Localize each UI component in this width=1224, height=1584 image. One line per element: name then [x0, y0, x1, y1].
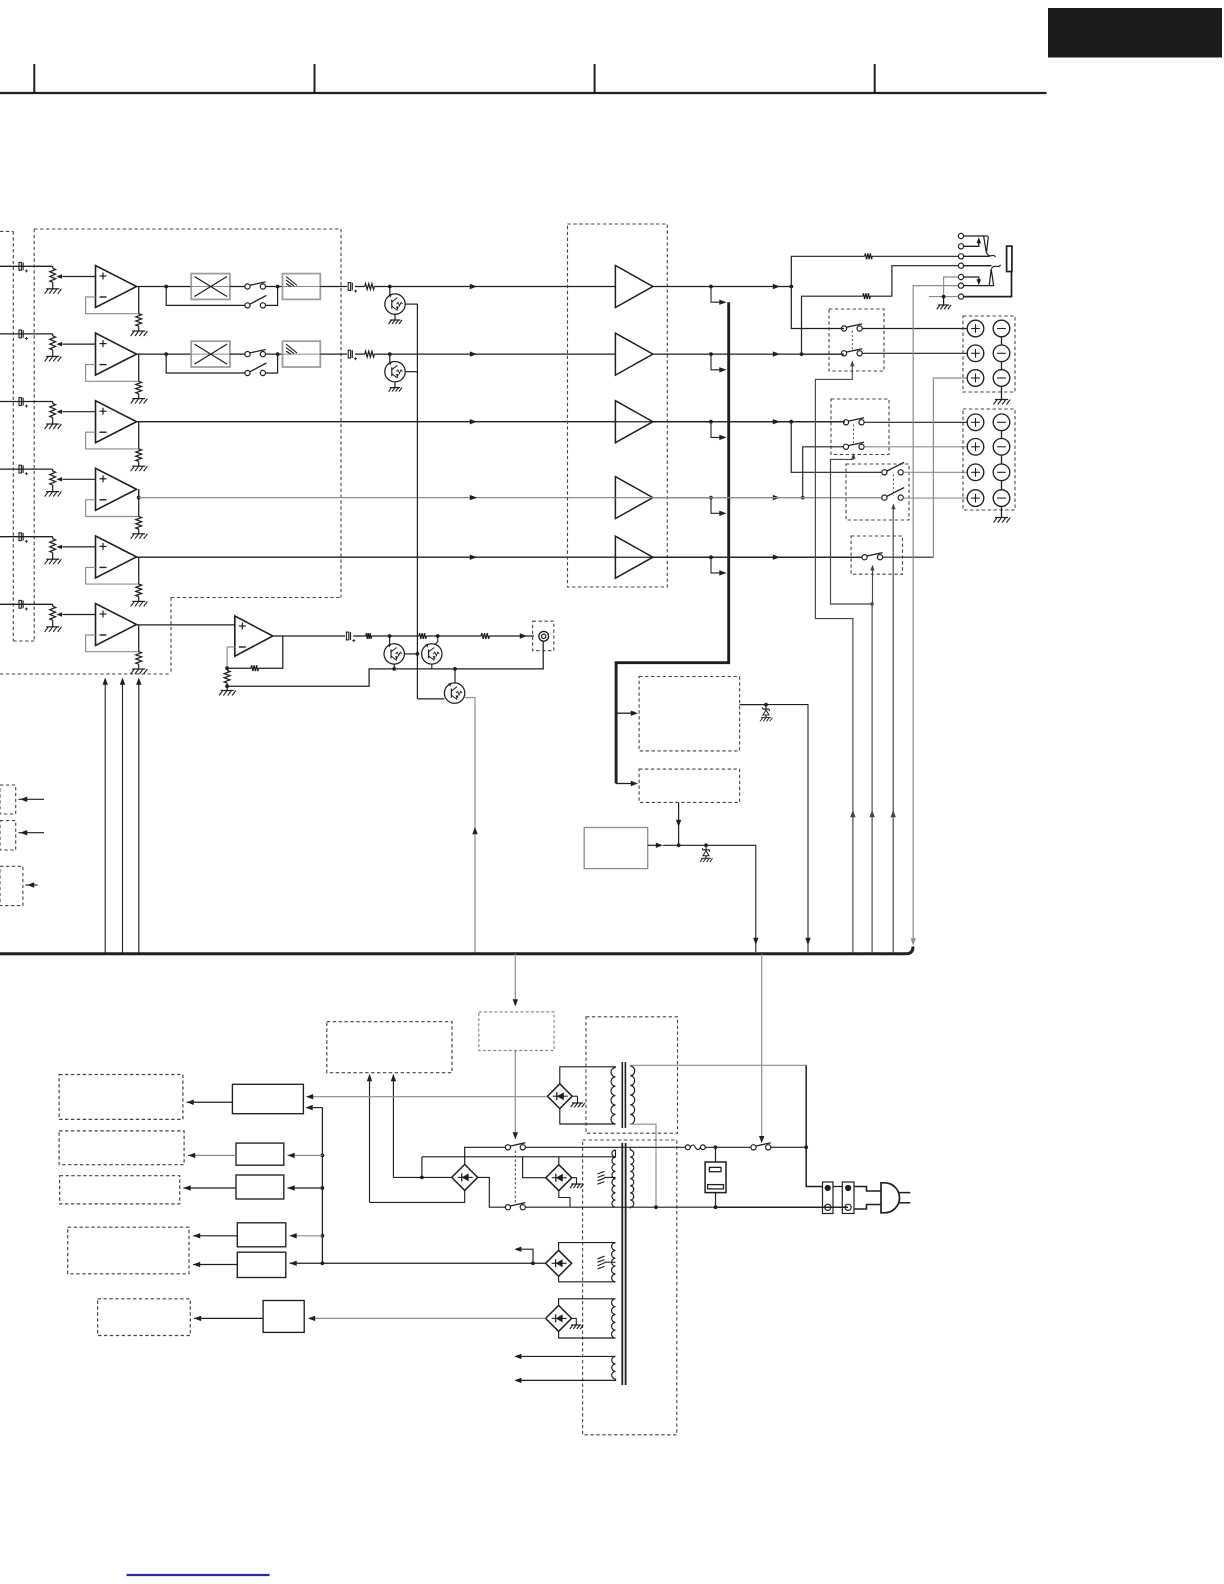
relay drive dashed box — [639, 769, 740, 802]
relay D control arrow — [872, 566, 874, 571]
preamp board dashed left edge — [33, 229, 35, 641]
wire — [870, 266, 958, 297]
fuse F1 — [685, 1145, 690, 1150]
arrow — [891, 810, 896, 817]
arrow — [290, 1233, 297, 1238]
wire jack c7 — [929, 296, 958, 298]
ground — [46, 355, 59, 357]
arrow into bus — [719, 300, 726, 305]
wire — [369, 1075, 371, 1203]
potentiometer VR4 volume — [50, 471, 56, 485]
arrow — [773, 419, 780, 424]
wire secondary1 top rail — [422, 1150, 616, 1157]
switch S2b tone bypass — [245, 370, 250, 375]
arrow — [773, 555, 780, 560]
wire — [52, 350, 54, 357]
pin — [845, 1185, 851, 1191]
node row 2 mute tee — [388, 352, 392, 356]
arrow — [391, 1074, 396, 1081]
switch S1a tone bypass — [245, 284, 250, 289]
wire jack c1 — [964, 235, 988, 237]
arrow — [193, 1233, 200, 1238]
wire — [653, 353, 711, 355]
terminal - speakers A3 — [993, 370, 1010, 387]
wire — [572, 1318, 577, 1325]
terminal + speakers A2 — [967, 345, 984, 362]
wire — [52, 282, 54, 289]
wire — [653, 421, 711, 423]
thermal protector box — [705, 1162, 726, 1193]
centre tap ground — [604, 1176, 616, 1178]
terminal + speakers A3 — [967, 370, 984, 387]
wire — [1001, 506, 1003, 517]
wire main primary bottom — [629, 1207, 631, 1208]
capacitor coupling row 2 — [348, 350, 350, 358]
wire — [405, 303, 417, 305]
resistor sub series 1 — [366, 633, 372, 639]
wire — [560, 1067, 616, 1084]
node — [714, 1205, 718, 1209]
resistor series row 2 — [365, 351, 375, 357]
speaker bus thick wire — [616, 302, 729, 783]
regulator box R4 — [237, 1223, 285, 1247]
wire T1 primary bottom — [630, 1124, 656, 1207]
node — [321, 1154, 325, 1158]
wire input row 2 — [0, 333, 53, 335]
relay C linkage dashed — [892, 474, 894, 495]
transformer secondary 2 coil — [612, 1243, 616, 1282]
wire — [393, 1176, 452, 1178]
arrow into bus — [719, 570, 726, 575]
bridge rectifier B5 — [546, 1305, 572, 1331]
low-pass filter box row 1 — [283, 274, 321, 300]
node — [709, 420, 713, 424]
resistor feedback R1a — [136, 314, 142, 327]
wire — [653, 286, 711, 288]
connector sub pre-out — [539, 631, 549, 641]
wire — [52, 334, 54, 336]
wire — [833, 1186, 842, 1188]
node — [764, 703, 768, 707]
node — [704, 843, 708, 847]
arrow — [306, 1094, 313, 1099]
wire mute return bus — [227, 669, 540, 686]
wire row 5 output — [137, 556, 616, 558]
footer blue link rule — [127, 1574, 270, 1576]
regulator box R1 — [232, 1084, 303, 1113]
node row 2 rejoin — [276, 352, 280, 356]
wire — [872, 255, 958, 257]
arrow — [773, 351, 780, 356]
wire supply feed — [104, 680, 106, 954]
wire row2 through relay — [802, 353, 844, 355]
transistor Q5 mute driver — [444, 683, 464, 703]
arrow supply feed — [120, 678, 125, 685]
arrow — [631, 781, 638, 786]
op-amp U2 buffer — [96, 333, 137, 375]
arrow — [911, 938, 916, 945]
ground — [46, 626, 59, 628]
resistor feedback R6a — [136, 652, 142, 665]
wire stub — [516, 1249, 533, 1263]
wire — [184, 1187, 237, 1189]
wire — [431, 664, 433, 669]
transformer T1 core — [621, 1062, 623, 1128]
wire row5 through relay — [615, 556, 862, 558]
wire — [288, 1187, 323, 1189]
relay A control arrow — [851, 362, 853, 369]
wire — [421, 1157, 423, 1178]
wire branch to bus — [711, 287, 720, 303]
node — [420, 1176, 424, 1180]
switch AC relay — [751, 1145, 756, 1150]
preamp board dashed notch edge — [171, 597, 341, 599]
wire relay A control — [815, 369, 853, 954]
connector headphone jack pin — [958, 233, 963, 238]
load board dashed box D5 — [98, 1299, 191, 1336]
wire row3 through relay — [615, 421, 845, 423]
capacitor C1 input coupling — [19, 262, 21, 270]
wire AC line 2 — [525, 1206, 715, 1208]
wire — [394, 382, 396, 388]
terminal - speakers B4 — [993, 490, 1010, 507]
wire — [559, 1191, 570, 1208]
regulator box R6 — [263, 1301, 304, 1333]
capacitor C5 input coupling — [19, 533, 21, 541]
wire — [559, 1276, 616, 1282]
wire — [653, 497, 711, 499]
load board dashed box D4 — [68, 1227, 189, 1274]
ground — [132, 668, 145, 670]
wire feedback loop U2 — [86, 365, 139, 382]
wire AC riser — [806, 1065, 822, 1186]
arrow — [850, 810, 855, 817]
transistor Q3 sub mute — [384, 644, 404, 664]
power amp A4 — [615, 477, 653, 519]
wire standby rail — [307, 1096, 548, 1098]
wire branch to bus — [711, 354, 720, 370]
wire — [52, 604, 54, 606]
wire — [355, 286, 365, 288]
ground — [46, 491, 59, 493]
wire row line — [711, 421, 845, 423]
resistor sub series 3 — [481, 633, 489, 639]
wire — [1001, 481, 1003, 490]
node row 1 rejoin — [276, 285, 280, 289]
wire row 4 output jog — [138, 489, 140, 497]
wire — [259, 636, 283, 668]
wire — [266, 353, 283, 355]
connector headphone jack pin — [958, 283, 963, 288]
AC plug body — [881, 1183, 900, 1213]
protector element — [709, 1167, 721, 1171]
wire input row 6 — [0, 603, 53, 605]
wire row2 to jack — [802, 296, 863, 354]
wire — [559, 1243, 616, 1251]
switch S1b tone bypass — [245, 303, 250, 308]
power amp block dashed box — [568, 224, 668, 587]
terminal - speakers B2 — [993, 439, 1010, 456]
power amp A2 — [615, 333, 653, 375]
low-pass filter box row 2 — [283, 341, 321, 367]
arrow — [753, 938, 758, 945]
arrow jack switch — [977, 279, 982, 285]
control connector box dashed — [0, 821, 16, 850]
wire — [405, 371, 417, 373]
relay box A dashed — [829, 309, 884, 371]
terminal + speakers B1 — [967, 414, 984, 431]
wire — [540, 641, 543, 669]
wire — [394, 314, 396, 320]
op-amp U4 buffer — [96, 468, 137, 510]
arrow — [288, 1185, 295, 1190]
switch relay A-L — [841, 326, 846, 331]
node mute bus — [416, 652, 420, 656]
terminal - speakers A2 — [993, 345, 1010, 362]
wire — [489, 635, 534, 637]
capacitor sub-out coupling — [346, 632, 348, 640]
resistor feedback R2a — [136, 381, 142, 394]
arrow — [194, 1316, 201, 1321]
potentiometer VR2 volume — [50, 336, 56, 350]
regulator box R2 — [236, 1143, 284, 1165]
wire jack c2 — [964, 240, 979, 247]
pin — [825, 1185, 831, 1191]
node — [804, 1145, 808, 1149]
potentiometer VR5 volume — [50, 539, 56, 553]
wire — [52, 485, 54, 492]
wire to terminal A3 — [933, 378, 967, 557]
relay B control arrow — [852, 454, 854, 460]
wire — [663, 844, 706, 846]
balance modulator box row 1 — [191, 274, 230, 300]
bridge rectifier B1 standby — [547, 1084, 572, 1109]
protection circuit dashed box — [639, 677, 740, 751]
potentiometer VR1 volume — [50, 268, 56, 282]
transformer main primary coil — [630, 1150, 634, 1207]
wire row4 through relay C — [615, 497, 882, 499]
wire — [465, 1147, 506, 1164]
potentiometer VR3 volume — [50, 404, 56, 418]
hatch ground — [598, 1256, 605, 1259]
wire — [230, 353, 245, 355]
load board dashed box D2 — [59, 1131, 184, 1165]
standby transformer dashed box — [586, 1017, 678, 1133]
wire — [478, 1177, 506, 1207]
arrow — [27, 882, 34, 887]
resistor U7 feedback — [251, 665, 259, 671]
resistor sub series 2 — [419, 633, 426, 639]
switch relay B-1 — [843, 420, 848, 425]
capacitor C2 input coupling — [19, 330, 21, 338]
wire — [19, 832, 45, 834]
wire — [560, 1109, 616, 1125]
node — [709, 352, 713, 356]
wire row line — [711, 286, 791, 288]
speakers B dashed box — [963, 409, 1015, 510]
arrow — [193, 1262, 200, 1267]
switch S2a tone bypass — [245, 352, 250, 357]
terminal - speakers A1 — [993, 320, 1010, 337]
node — [942, 295, 946, 299]
wire — [230, 286, 245, 288]
wire — [417, 698, 444, 700]
node row 1 mute tee — [388, 285, 392, 289]
jack tip leaf — [984, 236, 989, 253]
ground — [46, 423, 59, 425]
wire to protector — [616, 712, 632, 714]
wire — [188, 1154, 236, 1156]
op-amp U6 buffer — [96, 604, 137, 646]
ground — [46, 558, 59, 560]
header black box — [1048, 8, 1222, 58]
arrow — [288, 1153, 295, 1158]
wire relay BD control — [831, 459, 873, 953]
bridge rectifier B2 main — [452, 1164, 478, 1190]
wire — [193, 1235, 237, 1237]
wire — [138, 597, 140, 602]
ground — [132, 330, 145, 332]
node — [531, 1261, 535, 1265]
wire — [52, 553, 54, 560]
ground — [132, 600, 145, 602]
wire — [678, 802, 680, 845]
arrow — [514, 1354, 521, 1359]
switch power S1a — [505, 1145, 510, 1150]
wire — [872, 571, 874, 604]
resistor headphone L — [865, 253, 873, 259]
resistor feedback R5a — [136, 584, 142, 597]
node — [654, 1205, 658, 1209]
node U7 fb — [225, 666, 229, 670]
capacitor C6 input coupling — [19, 600, 21, 608]
wire branch to bus — [711, 557, 720, 573]
node — [392, 667, 396, 671]
hatch ground — [598, 1171, 605, 1174]
node — [870, 602, 873, 605]
wire U7 output — [273, 635, 345, 637]
wire AC bottom — [716, 1206, 849, 1208]
transformer T1 primary coil — [630, 1066, 635, 1124]
wire standby feed — [514, 954, 516, 1000]
connector headphone jack pin — [958, 254, 963, 259]
pin — [825, 1204, 831, 1210]
wire — [374, 353, 472, 355]
wire row 4 output — [139, 497, 616, 499]
wire — [514, 1051, 516, 1138]
transistor Q2 muting — [385, 362, 405, 382]
headphone plug body — [1007, 246, 1012, 271]
ground — [221, 690, 234, 692]
page tick mark — [874, 64, 876, 93]
node — [800, 352, 804, 356]
node — [709, 496, 713, 500]
relay B linkage dashed — [852, 424, 854, 445]
wire — [52, 266, 54, 268]
arrow signal row 2 — [470, 351, 477, 356]
wire — [766, 705, 808, 952]
wire — [52, 402, 54, 404]
arrow — [20, 830, 27, 835]
arrow — [187, 1100, 194, 1105]
wire — [226, 683, 228, 691]
wire input row 5 — [0, 536, 53, 538]
wire row1 to jack — [791, 256, 864, 286]
wire input row 1 — [0, 265, 53, 267]
page tick mark — [314, 64, 316, 93]
transistor Q4 sub mute — [422, 644, 442, 664]
wire — [374, 286, 472, 288]
terminal + speakers B4 — [967, 490, 984, 507]
wire row line — [711, 353, 844, 355]
wire — [355, 353, 365, 355]
sub pre-out jack box — [533, 621, 554, 651]
wire — [559, 1299, 616, 1306]
wire feedback loop U4 — [86, 500, 139, 517]
node — [225, 684, 229, 688]
supply bus vertical — [321, 1108, 323, 1264]
wire sense tap — [516, 1379, 616, 1381]
wire feedback loop U6 — [86, 635, 139, 652]
wire op-amp U2 output — [137, 353, 192, 355]
op-amp U5 buffer — [96, 536, 137, 578]
wire — [389, 287, 391, 295]
page tick mark — [594, 64, 596, 93]
wire input row 3 — [0, 401, 53, 403]
connector headphone jack pin — [958, 244, 963, 249]
wire AC line 1 — [525, 1146, 685, 1148]
cap column dashed edge — [13, 640, 34, 642]
arrow — [676, 820, 681, 827]
wire — [705, 1146, 751, 1148]
node — [436, 634, 440, 638]
wire supply feed — [122, 680, 124, 954]
resistor U7 to ground — [224, 671, 230, 684]
wire jack c3 stub — [964, 255, 990, 257]
wire — [740, 704, 766, 706]
arrow signal row 3 — [470, 419, 477, 424]
balance modulator box row 2 — [191, 341, 230, 367]
wire bypass path row 1 — [166, 287, 245, 306]
arrow signal row 1 — [470, 284, 477, 289]
node — [789, 285, 793, 289]
wire supply feed — [138, 680, 140, 954]
wire mute control vertical — [416, 304, 418, 699]
switch relay A-R — [841, 351, 846, 356]
node — [388, 634, 392, 638]
control connector box dashed — [0, 866, 23, 905]
switch relay C-2 — [882, 495, 887, 500]
arrow — [513, 999, 518, 1006]
arrow — [773, 495, 780, 500]
main transformer core — [621, 1143, 623, 1385]
wire — [370, 1190, 465, 1202]
wire — [353, 635, 366, 637]
power amp A1 — [615, 266, 653, 308]
wire — [138, 461, 140, 466]
bridge rectifier B3 main2 — [546, 1165, 572, 1191]
main board boundary thick rule — [0, 947, 913, 954]
wire jack c6 stub — [964, 285, 994, 287]
regulator box R5 — [237, 1252, 285, 1277]
wire main rail — [290, 1262, 546, 1264]
node — [453, 667, 457, 671]
op-amp U7 subwoofer driver — [235, 616, 273, 656]
wire feedback loop U3 — [86, 432, 139, 449]
arrow — [306, 1105, 313, 1110]
arrow supply feed — [103, 678, 108, 685]
speakers A dashed box — [963, 316, 1015, 392]
